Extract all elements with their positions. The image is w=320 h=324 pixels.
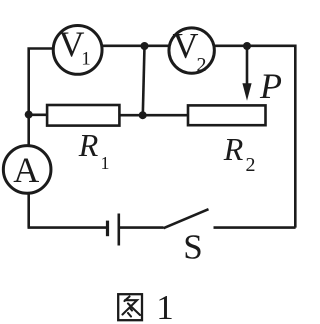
svg-text:P: P bbox=[259, 66, 282, 106]
wire: divider from top rail down to R1/R2 junction bbox=[143, 46, 145, 115]
switch S blade (open) bbox=[164, 209, 209, 228]
wire: top rail from V1 right across V2 to top-right corner and down right side bbox=[77, 46, 295, 228]
svg-text:R: R bbox=[78, 127, 99, 163]
caption character 图 (drawn glyph) bbox=[118, 294, 142, 320]
junction node: top rail between V1 and V2 bbox=[141, 42, 149, 50]
ammeter A circle bbox=[3, 146, 51, 194]
svg-text:2: 2 bbox=[197, 54, 207, 76]
arrowhead of pointer P bbox=[242, 83, 251, 101]
wire: switch right contact to bottom-right corner bbox=[214, 226, 296, 229]
junction node: left (R1 left / V1 tap) bbox=[25, 111, 33, 119]
svg-text:A: A bbox=[13, 150, 39, 190]
wire: battery to switch hinge bbox=[120, 226, 164, 229]
svg-text:R: R bbox=[223, 131, 244, 167]
resistor R1 body bbox=[47, 105, 119, 126]
voltmeter V2 circle bbox=[169, 28, 214, 73]
svg-text:1: 1 bbox=[81, 49, 91, 70]
svg-text:1: 1 bbox=[156, 288, 174, 324]
battery cell: short plate (negative) bbox=[106, 221, 109, 237]
wire: R1 right terminal to R2 left terminal bbox=[120, 114, 187, 117]
junction node: between R1 and R2 bbox=[139, 111, 147, 119]
wire: bottom-left segment to battery bbox=[28, 226, 108, 229]
svg-text:S: S bbox=[183, 228, 202, 267]
battery cell: long plate (positive) bbox=[118, 214, 121, 246]
junction node: top rail at pointer P bbox=[243, 42, 251, 50]
voltmeter V1 circle bbox=[53, 26, 102, 75]
rheostat R2 body bbox=[188, 105, 266, 125]
wire: slider stem from top rail down to R2 (pointer P) bbox=[246, 46, 249, 85]
svg-text:2: 2 bbox=[246, 154, 256, 176]
svg-text:1: 1 bbox=[101, 153, 110, 173]
wire: left branch from V1 left terminal down left side to bottom-left corner bbox=[29, 49, 64, 228]
wire: junction node to R1 left terminal bbox=[29, 114, 46, 117]
svg-text:V: V bbox=[173, 26, 199, 66]
